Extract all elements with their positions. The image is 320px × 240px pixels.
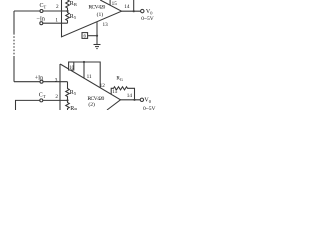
svg-text:10: 10: [69, 66, 74, 71]
svg-text:RG: RG: [116, 76, 122, 82]
svg-text:15: 15: [112, 89, 118, 95]
svg-text:14: 14: [127, 93, 133, 99]
svg-text:RB: RB: [70, 1, 77, 7]
svg-text:(1): (1): [97, 11, 104, 18]
svg-text:11: 11: [87, 74, 92, 80]
svg-text:RB: RB: [70, 106, 77, 110]
svg-text:(2): (2): [88, 101, 95, 108]
svg-text:CT: CT: [40, 3, 47, 9]
svg-text:RCV420: RCV420: [88, 5, 105, 11]
svg-text:V0: V0: [144, 98, 151, 104]
svg-text:R5: R5: [70, 90, 77, 96]
svg-text:1: 1: [55, 17, 58, 23]
svg-text:CT: CT: [39, 93, 46, 99]
svg-text:2: 2: [55, 94, 58, 100]
svg-text:0~5V: 0~5V: [141, 16, 153, 22]
svg-text:R5: R5: [70, 14, 77, 20]
svg-text:12: 12: [100, 83, 106, 89]
svg-text:13: 13: [103, 22, 109, 28]
svg-text:2: 2: [56, 4, 59, 10]
svg-text:V0: V0: [146, 9, 153, 15]
svg-text:3: 3: [55, 77, 58, 83]
svg-text:+In: +In: [35, 76, 43, 82]
svg-text:0~5V: 0~5V: [143, 106, 155, 110]
svg-text:−In: −In: [37, 17, 45, 23]
svg-text:14: 14: [124, 4, 130, 10]
svg-text:15: 15: [112, 1, 118, 7]
